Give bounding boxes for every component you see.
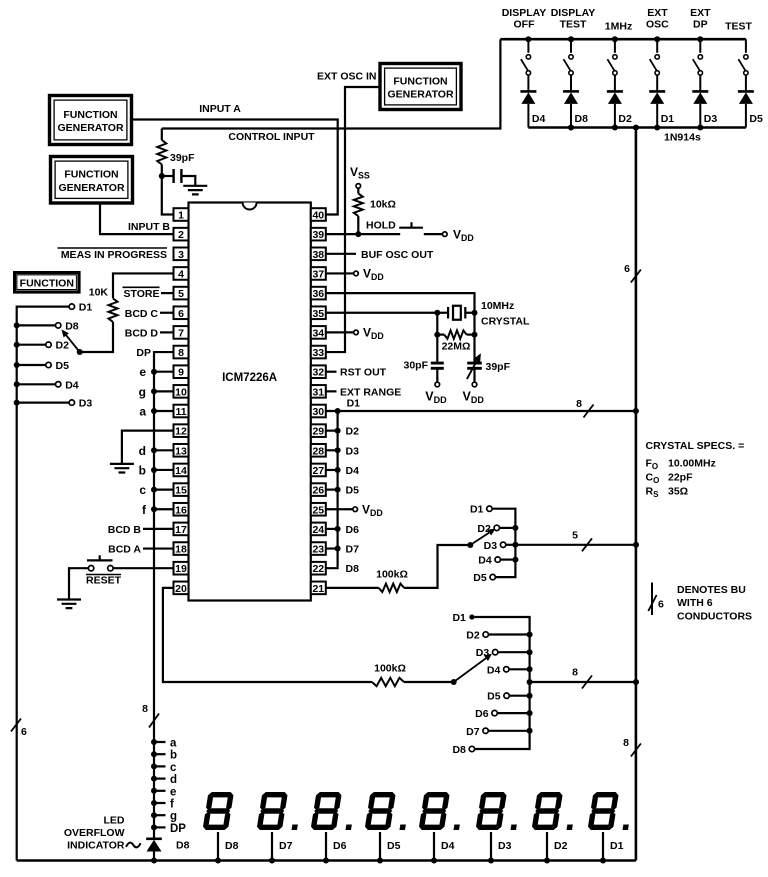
bus slash 5 row <box>582 538 592 551</box>
svg-text:6: 6 <box>624 263 630 275</box>
wire segment bus to pin 13 <box>154 449 174 451</box>
svg-text:14: 14 <box>175 465 187 477</box>
svg-text:D4: D4 <box>478 555 492 567</box>
svg-text:g: g <box>170 811 177 823</box>
svg-text:D3: D3 <box>346 445 360 457</box>
svg-text:3: 3 <box>178 249 184 261</box>
pin 14 <box>174 464 189 477</box>
junction digit bus pin 30 <box>335 408 341 414</box>
rotary wiper arm (arrow to D8) <box>62 330 80 353</box>
svg-text:19: 19 <box>175 563 187 575</box>
7-segment display digit D4 <box>418 792 465 830</box>
resistor 10kohm (HOLD pullup) <box>354 188 363 234</box>
label 10MHz CRYSTAL <box>481 300 530 328</box>
junction digit bus pin 26 <box>335 487 341 493</box>
selector1 contact D2 <box>494 525 499 530</box>
wire pin 32 stub <box>326 371 337 373</box>
wire pin 28 stub <box>326 449 338 451</box>
svg-text:31: 31 <box>312 386 324 398</box>
svg-text:CRYSTAL SPECS. =: CRYSTAL SPECS. = <box>646 440 745 452</box>
wire contact D4 to rail (sel2) <box>509 668 530 670</box>
svg-text:FUNCTION: FUNCTION <box>393 75 447 87</box>
left rail (function switch common) <box>17 307 72 861</box>
resistor 100k (upper) <box>379 584 404 592</box>
wire diode D5 to bottom bus <box>745 104 747 128</box>
terminal VDD (39pF) <box>472 382 477 387</box>
function generator box FG1 (INPUT A) <box>50 96 132 145</box>
svg-text:22: 22 <box>312 563 324 575</box>
main bus vertical <box>635 128 638 861</box>
junction bottom bus <box>654 125 660 131</box>
bus slash 6 on left rail <box>11 719 21 732</box>
wire pin 21 to 100k <box>326 587 379 589</box>
resistor 10K <box>109 298 118 322</box>
pin 34 <box>311 326 326 339</box>
junction crystal left <box>434 310 440 316</box>
diode D4 1N914 <box>520 91 536 104</box>
pin 25 <box>311 503 326 516</box>
pin 31 <box>311 385 326 398</box>
selector2 contact D1 (closed) <box>469 614 474 619</box>
wire segment bus to pin 14 <box>154 469 174 471</box>
wire diode D8 to bottom bus <box>570 104 572 128</box>
svg-text:1: 1 <box>178 210 184 222</box>
trimmer capacitor 39pF <box>467 335 482 383</box>
switch 1MHz <box>607 39 617 91</box>
junction segment bus pin 10 <box>151 388 157 394</box>
svg-text:17: 17 <box>175 524 187 536</box>
svg-text:12: 12 <box>175 426 187 438</box>
svg-text:d: d <box>170 774 177 786</box>
svg-text:33: 33 <box>312 347 324 359</box>
switch DISPLAY OFF <box>521 39 531 91</box>
pin 29 <box>311 424 326 437</box>
lower selector wiper arm <box>454 654 492 682</box>
pin 37 <box>311 267 326 280</box>
selector1 contact D3 <box>500 542 505 547</box>
junction segment DP <box>151 824 157 830</box>
wire contact D2 to rail (sel2) <box>488 633 529 635</box>
junction rail D5 <box>14 362 20 368</box>
junction digit bus pin 24 <box>335 526 341 532</box>
junction digit bus pin 28 <box>335 447 341 453</box>
wire pin 36 to crystal right node <box>326 293 475 313</box>
svg-text:10K: 10K <box>89 287 109 299</box>
rotary contact D1 <box>69 304 74 309</box>
svg-text:D6: D6 <box>346 524 360 536</box>
svg-text:BUF OSC OUT: BUF OSC OUT <box>361 249 434 261</box>
svg-text:FUNCTION: FUNCTION <box>64 169 118 181</box>
wire contact D6 to rail (sel2) <box>497 712 529 714</box>
ground (pin 12) <box>110 464 134 473</box>
svg-text:DENOTES BU: DENOTES BU <box>677 584 746 596</box>
legend bus symbol <box>648 583 656 616</box>
svg-text:8: 8 <box>623 737 629 749</box>
wire digit D3 to rail <box>490 832 492 861</box>
svg-text:D7: D7 <box>466 726 480 738</box>
svg-text:D1: D1 <box>347 398 361 410</box>
ground (input network) <box>183 186 207 195</box>
junction digit bus pin 23 <box>335 546 341 552</box>
svg-text:22MΩ: 22MΩ <box>442 341 471 353</box>
upper selector wiper arm <box>470 529 495 546</box>
svg-text:D5: D5 <box>473 572 487 584</box>
junction rail digit D4 <box>431 858 437 864</box>
selector2 contact D7 <box>483 728 488 733</box>
wire segment stub DP <box>154 826 166 828</box>
switch array top bus <box>500 38 746 41</box>
svg-text:6: 6 <box>21 726 27 738</box>
7-segment display digit D8 <box>202 792 234 830</box>
svg-text:D4: D4 <box>532 113 546 125</box>
wire pin 19 to RESET switch <box>113 567 173 569</box>
svg-text:DP: DP <box>136 347 151 359</box>
terminal VDD (pin 37) <box>354 271 359 276</box>
note CRYSTAL SPECS <box>646 440 745 499</box>
upper selector rail <box>492 509 515 577</box>
wire sel2 rail to main bus (8 conductors) <box>530 681 636 683</box>
svg-text:TEST: TEST <box>560 19 587 31</box>
svg-text:DISPLAY: DISPLAY <box>551 7 596 19</box>
capacitor 30pF <box>431 335 444 383</box>
wire pin 20 to lower 100k resistor <box>163 588 372 682</box>
svg-text:CONDUCTORS: CONDUCTORS <box>677 611 752 623</box>
junction main bus D1 row <box>633 408 639 414</box>
svg-text:OFF: OFF <box>514 19 536 31</box>
svg-text:8: 8 <box>572 667 578 679</box>
svg-text:INPUT A: INPUT A <box>199 103 241 115</box>
svg-text:32: 32 <box>312 367 324 379</box>
svg-text:D4: D4 <box>487 664 501 676</box>
junction rail D4 (sel1) <box>512 557 518 563</box>
wire BCD C to pin 6 <box>160 312 174 314</box>
FUNCTION box <box>15 273 79 292</box>
svg-text:D6: D6 <box>475 708 489 720</box>
svg-text:15: 15 <box>175 485 187 497</box>
svg-text:c: c <box>139 483 146 497</box>
svg-text:36: 36 <box>312 288 324 300</box>
svg-text:D4: D4 <box>65 379 79 391</box>
7-segment display digit D6 <box>310 792 357 830</box>
wire pin 30 D1 row to main bus <box>326 410 636 412</box>
wire crystal right down <box>473 313 475 335</box>
junction top bus EXT OSC <box>654 36 660 42</box>
junction rail digit D7 <box>269 858 275 864</box>
svg-text:D3: D3 <box>498 840 512 852</box>
pin 16 <box>174 503 189 516</box>
svg-text:29: 29 <box>312 426 324 438</box>
junction segment d <box>151 776 157 782</box>
crystal Y1 10MHz <box>437 306 474 320</box>
bus slash 6 main <box>631 270 641 283</box>
svg-text:11: 11 <box>175 406 186 418</box>
junction rail digit D8 <box>215 858 221 864</box>
wire diode D3 to bottom bus <box>699 104 701 128</box>
junction rail digit D1 <box>600 858 606 864</box>
wire BCD B to pin 17 <box>143 528 174 530</box>
bus slash 8 row (sel2) <box>582 676 592 689</box>
svg-text:D2: D2 <box>466 630 480 642</box>
svg-text:a: a <box>170 738 177 750</box>
junction rail D4 <box>14 381 20 387</box>
svg-text:35Ω: 35Ω <box>668 486 688 498</box>
svg-text:6: 6 <box>178 308 184 320</box>
wire pin 12 to ground <box>122 431 174 464</box>
svg-text:ICM7226A: ICM7226A <box>222 372 277 384</box>
svg-text:25: 25 <box>312 504 324 516</box>
svg-text:D4: D4 <box>441 840 455 852</box>
junction 22M right <box>472 332 478 338</box>
7-segment display digit D3 <box>475 792 522 830</box>
junction rail D2 <box>14 342 20 348</box>
wire digit D2 to rail <box>546 832 548 861</box>
7-segment display digit D5 <box>364 792 411 830</box>
svg-text:2: 2 <box>178 229 184 241</box>
wire segment stub b <box>154 753 166 755</box>
wire INPUT B from FG2 to pin 2 <box>100 203 174 234</box>
svg-text:21: 21 <box>312 583 324 595</box>
svg-text:DISPLAY: DISPLAY <box>502 7 547 19</box>
wire segment bus to pin 15 <box>154 489 174 491</box>
pin 15 <box>174 483 189 496</box>
wire rail to contact D8 <box>17 324 56 326</box>
pin 9 <box>174 365 189 378</box>
svg-text:e: e <box>170 786 176 798</box>
wire segment stub e <box>154 790 166 792</box>
label DISPLAY OFF <box>502 7 547 31</box>
wire digit D8 to rail <box>217 832 219 861</box>
svg-text:39: 39 <box>312 229 324 241</box>
wire digit D4 to rail <box>433 832 435 861</box>
selector1 contact D1 <box>487 506 492 511</box>
svg-text:RESET: RESET <box>86 575 122 587</box>
svg-text:D8: D8 <box>65 320 79 332</box>
svg-text:D7: D7 <box>346 544 360 556</box>
lower selector rail <box>475 617 530 749</box>
pin 24 <box>311 523 326 536</box>
junction bottom bus <box>568 125 574 131</box>
svg-text:e: e <box>139 365 146 379</box>
svg-text:4: 4 <box>178 268 184 280</box>
diode array bottom bus <box>528 126 746 129</box>
wire pin 38 stub <box>326 253 356 255</box>
wire segment bus to pin 10 <box>154 390 174 392</box>
wire segment stub g <box>154 814 166 816</box>
svg-text:D5: D5 <box>749 113 763 125</box>
junction segment bus pin 13 <box>151 447 157 453</box>
junction rail D4 (sel2) <box>527 666 533 672</box>
junction rail digit D6 <box>323 858 329 864</box>
svg-text:23: 23 <box>312 544 324 556</box>
terminal VDD (HOLD) <box>443 232 448 237</box>
rotary contact D2 <box>46 342 51 347</box>
svg-text:RST OUT: RST OUT <box>340 367 387 379</box>
svg-text:7: 7 <box>178 327 184 339</box>
svg-text:30: 30 <box>312 406 324 418</box>
wire pin 29 stub <box>326 430 338 432</box>
svg-text:10: 10 <box>175 386 187 398</box>
svg-text:g: g <box>139 385 146 399</box>
wire CONTROL INPUT from pin-1 node to switch bus <box>162 39 501 128</box>
bus slash 8 main lower <box>631 744 641 757</box>
wire HOLD to VDD terminal <box>424 233 443 235</box>
svg-text:37: 37 <box>312 268 324 280</box>
junction rail D5 (sel2) <box>527 693 533 699</box>
junction crystal right <box>472 310 478 316</box>
svg-text:CONTROL INPUT: CONTROL INPUT <box>228 131 315 143</box>
svg-text:WITH 6: WITH 6 <box>677 597 713 609</box>
svg-text:34: 34 <box>312 327 324 339</box>
wire segment stub d <box>154 777 166 779</box>
label MEAS IN PROGRESS (pin 3) <box>58 248 168 261</box>
svg-text:8: 8 <box>178 347 184 359</box>
wire digit D7 to rail <box>271 832 273 861</box>
rotary contact D3 <box>69 400 74 405</box>
svg-text:INPUT B: INPUT B <box>128 221 170 233</box>
svg-text:FUNCTION: FUNCTION <box>63 109 117 121</box>
IC U1 ICM7226A body <box>189 203 311 601</box>
wire segment bus to pin 16 <box>154 508 174 510</box>
pin 7 <box>174 326 189 339</box>
svg-text:24: 24 <box>312 524 324 536</box>
wire digit D1 to rail <box>602 832 604 861</box>
svg-text:D7: D7 <box>279 840 293 852</box>
svg-text:28: 28 <box>312 445 324 457</box>
svg-text:OVERFLOW: OVERFLOW <box>64 827 125 839</box>
switch TEST <box>738 39 748 91</box>
pin 40 <box>311 208 326 221</box>
svg-text:D1: D1 <box>79 302 93 314</box>
wire pin 26 stub <box>326 489 338 491</box>
selector2 contact D4 <box>504 667 509 672</box>
svg-text:DP: DP <box>170 823 186 835</box>
label EXT DP <box>690 7 711 31</box>
junction rail digit D5 <box>377 858 383 864</box>
bus slash 8 on D1 row <box>584 405 594 418</box>
diode D5 1N914 <box>738 91 754 104</box>
wire crystal left down <box>436 313 438 335</box>
ground (RESET) <box>57 600 81 609</box>
note LED OVERFLOW INDICATOR <box>64 815 125 852</box>
switch EXT OSC <box>650 39 660 91</box>
svg-text:22pF: 22pF <box>668 472 693 484</box>
capacitor to ground (input network) <box>162 169 196 186</box>
selector2 contact D6 <box>492 710 497 715</box>
wire pin 27 stub <box>326 469 338 471</box>
pin 22 <box>311 562 326 575</box>
junction digit bus pin 27 <box>335 467 341 473</box>
pin 38 <box>311 248 326 261</box>
wire 22M left lead <box>437 334 444 336</box>
selector1 contact D4 <box>495 557 500 562</box>
wire INPUT A from FG1 to pin 40 <box>132 120 338 215</box>
selector2 contact D8 <box>469 746 474 751</box>
resistor 100k (lower) <box>372 678 404 686</box>
svg-text:EXT: EXT <box>690 7 711 19</box>
pin 2 <box>174 228 189 241</box>
label EXT OSC <box>646 7 669 31</box>
wire node to pin 1 <box>162 176 174 215</box>
7-segment display digit D7 <box>256 792 303 830</box>
selector2 contact D5 <box>504 693 509 698</box>
svg-text:26: 26 <box>312 485 324 497</box>
wire contact D3 to rail (sel1) <box>506 544 516 546</box>
svg-text:D8: D8 <box>225 840 239 852</box>
junction segment b <box>151 751 157 757</box>
svg-text:D1: D1 <box>661 113 675 125</box>
junction segment c <box>151 763 157 769</box>
svg-text:BCD D: BCD D <box>125 327 159 339</box>
svg-text:HOLD: HOLD <box>366 220 396 232</box>
svg-text:a: a <box>139 405 146 419</box>
pin 21 <box>311 582 326 595</box>
junction digit bus pin 29 <box>335 428 341 434</box>
wire rail to contact D3 <box>17 402 69 404</box>
junction top bus DISPLAY TEST <box>568 36 574 42</box>
rotary contact D8 <box>56 323 61 328</box>
svg-text:GENERATOR: GENERATOR <box>57 122 124 134</box>
svg-text:5: 5 <box>178 288 184 300</box>
label DISPLAY TEST <box>551 7 596 31</box>
svg-text:f: f <box>170 799 174 811</box>
wire diode D4 to bottom bus <box>527 104 529 128</box>
svg-text:BCD A: BCD A <box>108 544 141 556</box>
svg-text:D8: D8 <box>575 113 589 125</box>
svg-text:GENERATOR: GENERATOR <box>387 89 454 101</box>
svg-text:35: 35 <box>312 308 324 320</box>
svg-text:d: d <box>139 444 146 458</box>
svg-text:DP: DP <box>693 19 708 31</box>
svg-text:D2: D2 <box>554 840 568 852</box>
junction top bus DISPLAY OFF <box>525 36 531 42</box>
svg-text:39pF: 39pF <box>170 152 195 164</box>
svg-text:20: 20 <box>175 583 187 595</box>
wire pin 23 stub <box>326 547 338 549</box>
svg-text:b: b <box>170 750 177 762</box>
junction rail D7 (sel2) <box>527 728 533 734</box>
wire pin 34 stub <box>326 331 354 333</box>
svg-text:D3: D3 <box>704 113 718 125</box>
svg-text:b: b <box>139 463 146 477</box>
svg-text:10MHz: 10MHz <box>481 300 514 312</box>
pin 12 <box>174 424 189 437</box>
selector2 contact D2 <box>483 632 488 637</box>
wire 100k to lower wiper <box>404 681 454 683</box>
7-segment display digit D1 <box>587 792 634 830</box>
pin 5 <box>174 287 189 300</box>
wire pin 39 to HOLD switch <box>326 233 400 235</box>
wire segment bus to pin 9 <box>154 371 174 373</box>
function generator box FG2 (INPUT B) <box>51 157 133 204</box>
label RESET <box>86 575 122 587</box>
junction segment bus pin 15 <box>151 487 157 493</box>
junction rail digit D3 <box>488 858 494 864</box>
LED overflow indicator D8 <box>146 839 162 861</box>
pin 19 <box>174 562 189 575</box>
svg-text:10kΩ: 10kΩ <box>370 199 396 211</box>
pin 10 <box>174 385 189 398</box>
wire pin 37 stub <box>326 272 354 274</box>
pin 18 <box>174 542 189 555</box>
terminal VDD (pin 25) <box>353 507 358 512</box>
wire digit bus vertical <box>326 411 338 568</box>
svg-text:1N914s: 1N914s <box>664 132 701 144</box>
svg-text:D8: D8 <box>346 563 360 575</box>
svg-text:OSC: OSC <box>646 19 669 31</box>
junction rail D3 <box>14 400 20 406</box>
svg-text:D3: D3 <box>484 540 498 552</box>
upper selector wiper pivot <box>467 542 473 548</box>
